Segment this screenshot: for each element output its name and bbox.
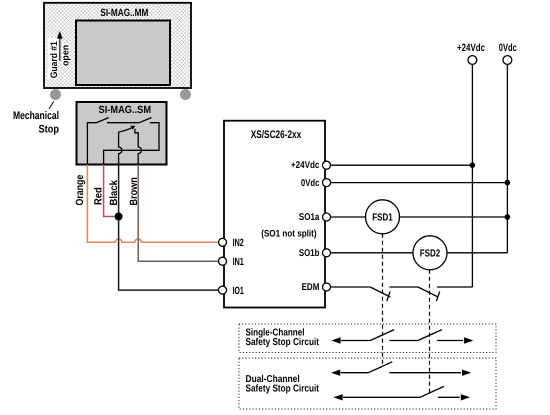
svg-text:open: open bbox=[60, 45, 71, 66]
single-channel contact 1 arm bbox=[370, 330, 394, 341]
reed contact right leg with hop bbox=[135, 129, 142, 165]
FSD1 NC contact tick bbox=[387, 292, 390, 302]
svg-text:SI-MAG..SM: SI-MAG..SM bbox=[99, 104, 152, 116]
dual-channel stop circuit box (dotted) bbox=[239, 358, 496, 409]
dual-channel line 1 right segment with arrow bbox=[389, 372, 461, 374]
dual-channel line 2 right segment with arrow bbox=[438, 396, 460, 398]
leader line to mechanical stop bbox=[49, 101, 54, 109]
terminal circle 0Vdc (box) bbox=[323, 179, 331, 187]
terminal circle +24Vdc supply bbox=[468, 56, 477, 65]
EDM wire middle segment bbox=[389, 286, 418, 288]
svg-text:IN1: IN1 bbox=[233, 256, 244, 268]
wire red bbox=[104, 165, 119, 217]
switch body SI-MAG..SM bbox=[77, 102, 167, 165]
wire SO1a to FSD1 and 0V bbox=[325, 216, 507, 218]
roller left bbox=[50, 89, 61, 100]
arrow guard opening direction bbox=[57, 31, 63, 39]
EDM wire to +24V rail bbox=[437, 286, 472, 288]
svg-text:Mechanical: Mechanical bbox=[13, 110, 59, 122]
terminal circle IN1 bbox=[219, 257, 227, 265]
terminal circle IO1 bbox=[219, 286, 227, 294]
+24Vdc vertical rail bbox=[471, 65, 473, 288]
reed contact arm with arrow bbox=[119, 128, 133, 132]
roller right bbox=[180, 89, 191, 100]
svg-text:0Vdc: 0Vdc bbox=[499, 42, 517, 54]
terminal circle EDM bbox=[323, 283, 331, 291]
svg-text:IN2: IN2 bbox=[233, 237, 244, 249]
svg-text:IO1: IO1 bbox=[233, 285, 244, 297]
junction dot red-black bbox=[115, 213, 123, 221]
FSD1 coil bbox=[366, 200, 400, 234]
svg-text:Stop: Stop bbox=[39, 124, 60, 136]
contact 1 arm (SM) bbox=[97, 118, 109, 123]
single-channel contact 2 arm bbox=[418, 330, 442, 341]
wire between contacts (SM) bbox=[107, 122, 139, 124]
wire top-right + right vertical (SM) bbox=[104, 123, 159, 165]
svg-text:Brown: Brown bbox=[128, 177, 140, 205]
magnet block (inner gray rectangle) bbox=[76, 21, 170, 86]
FSD1 mechanical link (dashed) bbox=[382, 234, 384, 366]
svg-text:+24Vdc: +24Vdc bbox=[291, 160, 320, 171]
terminal circle SO1a bbox=[323, 213, 331, 221]
svg-text:0Vdc: 0Vdc bbox=[301, 178, 320, 189]
single-channel middle segment bbox=[389, 340, 418, 342]
svg-text:SO1b: SO1b bbox=[299, 248, 320, 259]
svg-text:Safety Stop Circuit: Safety Stop Circuit bbox=[246, 384, 320, 395]
single-channel line left arrow bbox=[331, 337, 340, 343]
svg-text:Black: Black bbox=[108, 180, 120, 206]
FSD2 NC contact arm (EDM) bbox=[418, 287, 438, 297]
FSD1 NC contact arm (EDM) bbox=[370, 287, 390, 297]
FSD2 coil bbox=[413, 236, 447, 270]
svg-text:XS/SC26-2xx: XS/SC26-2xx bbox=[251, 129, 302, 141]
svg-text:(SO1 not split): (SO1 not split) bbox=[261, 229, 316, 240]
wire SO1b to FSD2 and 0V bbox=[325, 252, 507, 254]
svg-text:Orange: Orange bbox=[74, 175, 86, 206]
wire top-left inside SM bbox=[87, 123, 96, 165]
wire orange (IN2) bbox=[87, 165, 220, 243]
single-channel right segment with arrow bbox=[437, 340, 463, 342]
svg-text:Guard #1: Guard #1 bbox=[49, 41, 60, 79]
white strip behind guard labels bbox=[48, 38, 58, 79]
junction dot +24V bbox=[470, 162, 476, 168]
terminal circle 0Vdc supply bbox=[503, 56, 512, 65]
junction dot SO1a return bbox=[505, 214, 511, 220]
wire black (IO1) bbox=[119, 165, 220, 291]
svg-text:Safety Stop Circuit: Safety Stop Circuit bbox=[246, 337, 320, 348]
wire brown (IN1) bbox=[138, 165, 220, 262]
wire 0Vdc supply horizontal bbox=[325, 182, 507, 184]
terminal circle +24Vdc (box) bbox=[323, 161, 331, 169]
FSD2 mechanical link (dashed) bbox=[429, 270, 431, 393]
guard housing SI-MAG..MM (hatched frame) bbox=[44, 3, 191, 88]
EDM feedback wire with FSD contacts bbox=[325, 286, 370, 288]
terminal circle SO1b bbox=[323, 249, 331, 257]
terminal circle IN2 bbox=[219, 238, 227, 246]
reed contact left leg with hop bbox=[119, 132, 122, 165]
0Vdc vertical rail bbox=[506, 65, 508, 253]
svg-text:FSD2: FSD2 bbox=[420, 248, 441, 259]
svg-text:FSD1: FSD1 bbox=[372, 212, 393, 223]
svg-text:SI-MAG..MM: SI-MAG..MM bbox=[100, 7, 148, 19]
contact 2 arm (SM) bbox=[139, 118, 151, 123]
wire +24Vdc supply horizontal bbox=[325, 164, 472, 166]
single-channel stop circuit box (dotted) bbox=[239, 324, 496, 353]
FSD2 NC contact tick bbox=[436, 292, 439, 302]
safety controller box XS/SC26-2xx bbox=[224, 121, 325, 308]
dual-channel line 1 left arrow bbox=[331, 370, 340, 376]
svg-text:Red: Red bbox=[92, 187, 104, 205]
svg-text:SO1a: SO1a bbox=[299, 212, 320, 223]
svg-text:+24Vdc: +24Vdc bbox=[457, 42, 485, 54]
svg-text:EDM: EDM bbox=[302, 282, 320, 293]
junction dot 0V bbox=[505, 180, 511, 186]
dual-channel contact 2 arm bbox=[420, 386, 444, 397]
dual-channel line 2 left arrow bbox=[333, 394, 342, 400]
dual-channel contact 1 arm bbox=[368, 362, 392, 373]
